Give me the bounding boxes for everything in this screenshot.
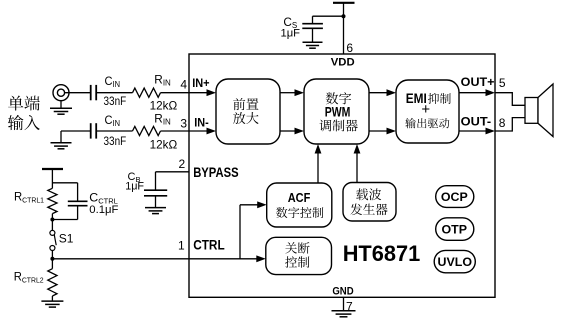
resistor RCTRL1 <box>14 188 57 213</box>
capacitor CCTRL 0.1uF parallel branch <box>52 183 118 220</box>
switch S1 <box>50 230 74 250</box>
svg-text:GND: GND <box>332 286 353 298</box>
svg-text:S1: S1 <box>59 231 74 245</box>
pin 4 <box>180 77 187 91</box>
svg-text:CTRL: CTRL <box>193 237 225 252</box>
pin label OUT- <box>461 114 492 128</box>
wire PWM to EMI (top) <box>369 89 396 96</box>
svg-text:0.1μF: 0.1μF <box>89 204 118 216</box>
wire BYPASS pin 2 <box>156 172 190 190</box>
pin label BYPASS <box>193 165 238 180</box>
wire EMI to OUT- pin 8 <box>459 128 495 135</box>
wire ACF to PWM <box>315 144 322 183</box>
svg-text:OCP: OCP <box>441 190 468 204</box>
wire RIN to preamp (pin 3) <box>161 128 217 135</box>
wire CIN to RIN <box>96 92 132 94</box>
block ACF数字控制 (ACF digital control) <box>267 183 332 227</box>
wire S1 to junction <box>51 251 53 259</box>
power rail bar (control divider) <box>42 168 63 170</box>
svg-text:12kΩ: 12kΩ <box>150 139 178 152</box>
wire gnd to CIN (IN-) <box>61 130 90 132</box>
wire connector to CIN <box>65 92 90 94</box>
wire CIN to RIN (IN-) <box>96 130 132 132</box>
pin 6 <box>346 41 353 55</box>
wire carrier generator to PWM <box>354 144 361 183</box>
pin 2 <box>179 157 186 171</box>
svg-text:ACF: ACF <box>288 190 311 205</box>
part name HT6871 <box>343 241 421 266</box>
resistor RCTRL2 <box>14 259 57 296</box>
ground (CS) <box>303 42 323 48</box>
svg-text:6: 6 <box>346 41 353 55</box>
input connector J1 <box>53 85 69 101</box>
svg-text:BYPASS: BYPASS <box>193 165 238 180</box>
ground at input connector <box>50 101 72 115</box>
pin label GND <box>332 286 353 298</box>
pin 7 <box>346 300 353 314</box>
wire GND pin 7 <box>343 297 345 310</box>
svg-text:33nF: 33nF <box>104 96 127 108</box>
wire VDD pin 6 <box>343 4 345 55</box>
pin label VDD <box>331 57 355 69</box>
block 数字PWM调制器 (digital PWM modulator) <box>304 79 369 144</box>
capacitor CIN (IN-) 33nF <box>91 113 127 148</box>
wire preamp to PWM (top) <box>280 89 304 96</box>
svg-text:OUT-: OUT- <box>461 114 492 128</box>
resistor RIN (IN-) 12k <box>133 111 178 151</box>
power rail bar (VDD supply) <box>333 2 355 4</box>
wire CS to ground <box>312 28 314 42</box>
wire CTRL pin 1 <box>52 255 265 262</box>
wire CB to ground <box>155 196 157 208</box>
svg-text:1μF: 1μF <box>281 28 301 40</box>
block OCP <box>436 186 474 208</box>
pin 3 <box>180 116 187 130</box>
wire OUT- to speaker <box>495 118 525 131</box>
svg-text:HT6871: HT6871 <box>343 241 421 266</box>
svg-text:1μF: 1μF <box>125 180 144 192</box>
node 单端输入 (single-ended input) label <box>8 96 40 131</box>
svg-text:33nF: 33nF <box>104 136 127 148</box>
svg-text:OUT+: OUT+ <box>461 75 495 89</box>
wire RIN to preamp (pin 4) <box>161 89 217 96</box>
svg-text:2: 2 <box>179 157 186 171</box>
junction S1/RCTRL2/CTRL <box>50 257 54 261</box>
wire PWM to EMI (bottom) <box>369 128 396 135</box>
capacitor CS 1uF <box>281 15 323 40</box>
block 关断控制 (shutdown control) <box>266 237 332 274</box>
ground at IN- input <box>51 131 72 149</box>
svg-text:3: 3 <box>180 116 187 130</box>
svg-text:OTP: OTP <box>442 222 467 236</box>
op-amp IC U1 HT6871 outline <box>189 54 495 297</box>
pin 1 <box>178 238 185 252</box>
block UVLO <box>434 250 475 272</box>
pin label IN- <box>194 116 209 130</box>
wire CTRL branch to ACF <box>240 201 267 258</box>
ground (RCTRL2) <box>41 296 63 307</box>
wire EMI to OUT+ pin 5 <box>459 89 495 96</box>
pin 8 <box>499 116 506 130</box>
svg-text:VDD: VDD <box>331 57 355 69</box>
svg-text:5: 5 <box>499 76 506 90</box>
svg-text:UVLO: UVLO <box>438 255 473 269</box>
svg-text:+: + <box>421 101 430 118</box>
wire rail to RCTRL1 <box>51 170 53 189</box>
block EMI抑制+输出驱动 (EMI suppression + output driver) <box>396 80 459 143</box>
block 前置放大 (preamp) <box>216 79 280 144</box>
wire preamp to PWM (bottom) <box>280 128 304 135</box>
svg-text:4: 4 <box>180 77 187 91</box>
svg-text:IN+: IN+ <box>192 76 209 90</box>
wire RCTRL1 bottom to junction <box>51 214 53 231</box>
junction VDD/CS <box>342 14 346 18</box>
svg-text:1: 1 <box>178 238 185 252</box>
svg-text:8: 8 <box>499 116 506 130</box>
pin 5 <box>499 76 506 90</box>
svg-text:PWM: PWM <box>325 104 351 120</box>
resistor RIN (IN+) 12k <box>133 72 178 112</box>
wire CS branch <box>313 16 344 23</box>
block OTP <box>436 218 474 241</box>
junction RCTRL1/CCTRL/S1 <box>50 218 54 222</box>
block 载波发生器 (carrier generator) <box>343 183 396 222</box>
ground (GND pin) <box>332 311 356 317</box>
pin label OUT+ <box>461 75 495 89</box>
ground (CB) <box>145 208 166 214</box>
svg-text:IN-: IN- <box>194 116 209 130</box>
speaker LS1 <box>525 84 553 137</box>
pin label IN+ <box>192 76 209 90</box>
capacitor CIN (IN+) 33nF <box>91 74 127 108</box>
pin label CTRL <box>193 237 225 252</box>
capacitor CB 1uF <box>125 171 167 196</box>
wire OUT+ to speaker <box>495 93 525 106</box>
